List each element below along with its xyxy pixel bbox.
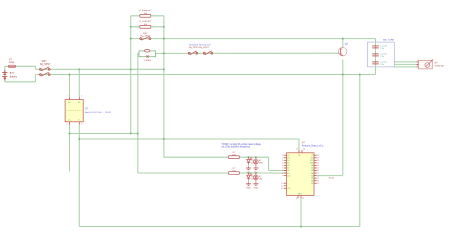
junction OUT- T — [78, 138, 80, 140]
svg-text:SW?: SW? — [42, 61, 48, 63]
wire OUT+ feed to vertical B — [70, 133, 138, 135]
wire right rail vertical — [163, 16, 165, 157]
svg-text:F?: F? — [9, 59, 12, 61]
switch SW3 thermostat A — [188, 51, 197, 55]
junction b3 right — [163, 38, 165, 40]
LED D4 — [254, 173, 259, 182]
switch SW4 thermostat B — [203, 51, 212, 55]
svg-text:19: 19 — [317, 183, 319, 185]
svg-text:1: 1 — [417, 60, 418, 62]
junction box4/thermostat — [163, 52, 165, 54]
ground row2 a — [246, 183, 251, 186]
junction OUT+ T — [69, 133, 71, 135]
svg-text:U?: U? — [85, 109, 89, 111]
wire buck OUT- down to bottom — [78, 125, 80, 227]
wire D3 to gnd — [248, 180, 250, 182]
sensor module lower contact — [146, 55, 148, 57]
junction right rail 5V feed — [163, 138, 165, 140]
wire into cap bank — [368, 38, 376, 40]
Arduino right pin stubs — [314, 154, 317, 156]
wire D4 to gnd — [255, 181, 257, 184]
wire battery + to switch — [5, 65, 36, 67]
junction buck IN+ — [69, 74, 71, 76]
junction row1 photo — [255, 156, 257, 158]
junction left rail V+ — [130, 68, 132, 70]
svg-text:Buck DC-DC 5v3 → 16.8V: Buck DC-DC 5v3 → 16.8V — [85, 112, 111, 114]
junction collector/branch3 — [342, 38, 344, 40]
sensor module photoresistor element — [145, 50, 150, 53]
svg-text:A7: A7 — [311, 182, 313, 185]
wire branch 1 — [131, 15, 164, 17]
sensor module U3 box — [139, 51, 156, 57]
LED D3 — [247, 173, 253, 181]
wire box4 left pin — [138, 52, 139, 54]
svg-text:9: 9 — [282, 175, 283, 177]
wire buck IN+ up — [69, 75, 71, 97]
wire left rail vertical — [130, 16, 132, 134]
wire battery left side — [4, 66, 6, 82]
svg-text:A5: A5 — [311, 177, 313, 180]
wire row2 — [138, 172, 287, 174]
wire buck OUT+ down (dangling) — [69, 125, 71, 172]
svg-text:IN-: IN- — [78, 102, 81, 104]
svg-text:A3: A3 — [311, 172, 313, 175]
wire drop to Arduino top pin — [298, 139, 300, 150]
resistor R3 — [228, 156, 239, 159]
wire battery - bottom — [5, 81, 36, 83]
wire row1 to Arduino — [269, 170, 287, 172]
svg-text:A4: A4 — [311, 174, 313, 177]
capacitor C1 — [372, 46, 379, 48]
buck converter U2 body — [65, 100, 83, 122]
svg-text:MIC TL/RB: MIC TL/RB — [383, 40, 394, 42]
svg-text:2.2u: 2.2u — [380, 48, 384, 50]
wire servo pin1 — [394, 61, 416, 63]
servo motor symbol — [425, 60, 433, 68]
wire into switch pole B — [35, 74, 50, 76]
svg-text:IN+: IN+ — [68, 102, 71, 104]
switch SW1 pole B — [40, 72, 51, 76]
svg-text:29: 29 — [302, 198, 304, 200]
wire branch 3 long to cap bank — [131, 38, 368, 40]
wire buck IN- up — [78, 69, 80, 97]
wire servo pin3 — [394, 66, 416, 68]
svg-text:28: 28 — [303, 149, 305, 151]
svg-text:3: 3 — [417, 65, 418, 67]
LED D2 — [254, 157, 259, 166]
servo pin stubs — [416, 61, 418, 63]
wire right vertical rail — [359, 75, 361, 227]
junction b2 left — [130, 26, 132, 28]
svg-text:Fuse: Fuse — [9, 62, 15, 64]
capacitor C2 — [372, 54, 379, 56]
svg-text:13: 13 — [298, 155, 300, 157]
svg-text:R_photores?: R_photores? — [139, 9, 152, 12]
svg-text:BT?: BT? — [10, 73, 15, 75]
wire up to Q1 emitter — [342, 60, 344, 176]
wire Arduino D-pin to Q1 — [317, 175, 343, 177]
wire row1 — [164, 156, 269, 158]
wire jog up to pole B — [34, 75, 36, 82]
junction b2 right — [163, 26, 165, 28]
ground row1 b — [253, 167, 258, 170]
wire OUT- feed to Arduino 5V — [79, 138, 299, 140]
wire servo pin2 — [394, 63, 416, 65]
battery BT1 — [2, 70, 7, 80]
wire Arduino GND down — [300, 198, 302, 226]
resistor R_photo — [140, 14, 151, 17]
Arduino left pin stubs — [284, 154, 287, 156]
junction B OUT+ feed — [137, 133, 139, 135]
ground row1 a — [246, 167, 251, 170]
wire row1 drop — [268, 157, 270, 170]
wire D1 to gnd — [248, 165, 250, 167]
svg-text:LM393: LM393 — [145, 60, 152, 62]
ground row2 b — [253, 183, 258, 186]
switch SW2 — [140, 36, 151, 40]
wire V+ top rail — [50, 68, 163, 70]
svg-text:LED: LED — [259, 178, 263, 180]
svg-text:A1: A1 — [311, 167, 313, 170]
wire thermostat to Q1 base — [164, 52, 338, 54]
svg-text:Rg_SPST: Rg_SPST — [40, 64, 51, 66]
junction b3 left — [130, 38, 132, 40]
svg-text:LED: LED — [259, 163, 263, 165]
switch SW1 pole A — [40, 67, 51, 71]
Arduino bottom pin stubs — [297, 196, 299, 199]
junction row2 photo — [255, 172, 257, 174]
wire branch 2 — [131, 26, 164, 28]
svg-text:Standard Thermostat?: Standard Thermostat? — [189, 43, 212, 46]
resistor R4 — [228, 172, 239, 175]
junction right rail top — [359, 74, 361, 76]
wire box4 right pin — [156, 52, 164, 54]
LED D1 — [247, 157, 253, 165]
transistor Q1 — [338, 47, 347, 56]
wire vertical B box4 to row2 — [137, 53, 139, 173]
svg-text:2.2u: 2.2u — [380, 64, 384, 66]
svg-text:4: 4 — [81, 123, 82, 125]
svg-text:2: 2 — [417, 63, 418, 65]
svg-text:2.2u: 2.2u — [380, 56, 384, 58]
svg-text:Rg_SPST Rg_SPST: Rg_SPST Rg_SPST — [189, 47, 210, 49]
Arduino top pin stubs — [298, 150, 300, 153]
junction buck IN- — [78, 68, 80, 70]
wire jog down to pole A — [34, 66, 36, 69]
wire V- bottom rail — [50, 74, 375, 76]
svg-text:SG90 9g?: SG90 9g? — [435, 65, 446, 67]
fuse F1 — [8, 65, 15, 67]
svg-text:27: 27 — [296, 149, 298, 151]
servo M1 body — [419, 61, 433, 69]
svg-text:A2: A2 — [311, 169, 313, 172]
wire Q1 collector up — [342, 39, 344, 48]
svg-text:TODO: moving IR emitter lead v: TODO: moving IR emitter lead voltage — [222, 143, 262, 146]
svg-text:D10: D10 — [287, 175, 290, 177]
wire cap bank vertical — [375, 39, 377, 75]
svg-text:GND: GND — [254, 188, 259, 190]
svg-text:GND: GND — [298, 193, 303, 195]
capacitor C3 — [372, 62, 379, 64]
svg-text:4: 4 — [296, 198, 297, 200]
svg-text:Battery: Battery — [10, 75, 18, 78]
svg-text:2: 2 — [81, 95, 82, 97]
capacitor bank box — [368, 42, 395, 67]
resistor R_LDR — [140, 25, 151, 28]
wire bottom ground return — [79, 226, 360, 228]
svg-text:M?: M? — [435, 63, 439, 65]
svg-text:Arduino_Nano_v3.x: Arduino_Nano_v3.x — [302, 144, 324, 147]
svg-text:GND: GND — [246, 188, 251, 190]
wire into switch pole A — [35, 68, 50, 70]
svg-text:O+: O+ — [68, 119, 70, 121]
Arduino Nano A1 body — [287, 153, 315, 196]
svg-text:1: 1 — [67, 95, 68, 97]
svg-text:12: 12 — [281, 188, 283, 190]
junction Arduino GND/bottom — [300, 226, 302, 228]
svg-text:Q?: Q? — [345, 44, 349, 46]
junction row1 LED — [248, 156, 250, 158]
wire D2 to gnd — [255, 165, 257, 168]
svg-text:Reset: Reset — [329, 177, 335, 180]
junction right rail V+ — [163, 68, 165, 70]
buck converter pin stubs — [69, 97, 71, 100]
svg-text:A0: A0 — [311, 164, 313, 167]
junction left rail end — [130, 133, 132, 135]
junction emitter/V- — [342, 74, 344, 76]
junction row2 LED — [248, 172, 250, 174]
svg-text:etc 20hz ambient frequency: etc 20hz ambient frequency — [222, 146, 251, 149]
svg-text:3: 3 — [67, 123, 68, 125]
svg-text:A6: A6 — [311, 179, 313, 182]
